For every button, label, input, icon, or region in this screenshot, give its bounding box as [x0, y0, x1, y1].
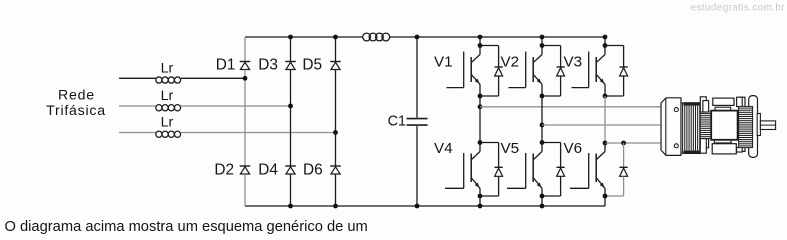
wire freewheel branch bottom leg 1 [480, 142, 499, 144]
diode freewheel (antiparallel to V2) [557, 67, 565, 76]
wire rectifier leg 3 middle [335, 70, 337, 167]
transistor IGBT V4 [434, 140, 480, 196]
inductor Lr (phase 3) [156, 115, 181, 138]
transistor IGBT V3 [564, 46, 606, 97]
svg-text:V1: V1 [434, 54, 453, 71]
node emitter V1 [478, 94, 483, 99]
inductor Lr (phase 2) [156, 88, 181, 111]
node phase 2 junction [288, 104, 293, 109]
node output phase 1 tap [478, 104, 483, 109]
node output phase 2 tap [540, 123, 545, 128]
wire DC+ top rail (bridge to choke) [245, 36, 363, 38]
node emitter V5 [540, 194, 545, 199]
node phase 1 junction [243, 76, 248, 81]
wire freewheel branch bottom return leg 1 [498, 176, 500, 196]
node emitter V3 [603, 94, 608, 99]
svg-text:estudegratis.com.br: estudegratis.com.br [691, 2, 786, 13]
transistor IGBT V1 [434, 46, 480, 97]
svg-text:Lr: Lr [161, 88, 174, 104]
wire leg 2 midpoint column [541, 96, 543, 143]
node C1 bottom [415, 204, 420, 209]
wire output phase 2 to motor [542, 124, 661, 126]
wire rectifier leg 2 middle [290, 70, 292, 167]
svg-text:V5: V5 [501, 140, 520, 157]
node bottom rail junction col2 [288, 204, 293, 209]
diode D6 [303, 162, 341, 179]
wire DC- bottom rail [245, 205, 605, 207]
svg-text:D3: D3 [258, 57, 278, 74]
wire output phase 1 to motor [480, 106, 661, 108]
node emitter V2 [540, 94, 545, 99]
wire phase 2 right segment [181, 105, 291, 107]
inductor DC link choke [363, 33, 390, 41]
wire phase 2 left segment [119, 105, 156, 107]
wire DC+ top rail (choke to inverter) [389, 36, 605, 38]
node C1 top [415, 35, 420, 40]
wire freewheel branch bottom return leg 2 [560, 176, 562, 196]
wire phase 3 right segment [181, 132, 336, 134]
wire rectifier leg 1 upper [244, 37, 246, 62]
wire rectifier leg 2 upper [290, 37, 292, 62]
wire rectifier leg 1 middle [244, 70, 246, 167]
svg-text:V2: V2 [501, 54, 520, 71]
node emitter V4 [478, 194, 483, 199]
node bottom rail leg 1 [478, 204, 483, 209]
node output phase 3 tap [603, 141, 608, 146]
wire freewheel branch top return leg 2 [560, 76, 562, 96]
transistor IGBT V5 [501, 140, 543, 196]
diode freewheel (antiparallel to V3) [620, 67, 628, 76]
diode freewheel (antiparallel to V5) [557, 167, 565, 176]
node freewheel branch bottom leg 3 [621, 141, 626, 146]
capacitor C1 [388, 37, 428, 206]
diode freewheel (antiparallel to V4) [495, 167, 503, 176]
svg-text:Lr: Lr [161, 60, 174, 76]
node bottom rail leg 2 [540, 204, 545, 209]
node top rail leg 2 [541, 37, 543, 46]
wire freewheel branch top return leg 1 [498, 76, 500, 96]
svg-text:Lr: Lr [161, 115, 174, 131]
node collector V4 [478, 140, 483, 145]
wire phase 1 right segment [181, 77, 245, 79]
wire rectifier leg 3 upper [335, 37, 337, 62]
wire rectifier leg 3 lower [335, 174, 337, 206]
svg-text:Rede: Rede [58, 88, 95, 104]
svg-text:O diagrama acima mostra um esq: O diagrama acima mostra um esquema genér… [5, 219, 368, 235]
svg-text:D2: D2 [214, 162, 234, 179]
wire emitter V4 to bottom rail [479, 196, 481, 206]
svg-text:D6: D6 [303, 162, 323, 179]
svg-text:V4: V4 [434, 140, 453, 157]
diode D3 [258, 57, 296, 74]
label Rede Trifásica (three-phase source) [46, 88, 106, 120]
wire leg 1 midpoint column [479, 96, 481, 143]
transistor IGBT V2 [501, 46, 543, 97]
node emitter V6 [603, 194, 608, 199]
wire freewheel branch bottom return leg 3 [623, 176, 625, 196]
svg-text:D5: D5 [302, 57, 322, 74]
wire freewheel branch bottom leg 3 [623, 143, 625, 167]
wire output phase 3 to motor [605, 142, 661, 144]
node top rail leg 3 [604, 37, 606, 46]
inductor Lr (phase 1) [156, 60, 181, 83]
node collector V5 [540, 140, 545, 145]
node top rail leg 1 [479, 37, 481, 46]
svg-text:V6: V6 [564, 140, 583, 157]
node bottom rail junction col3 [333, 204, 338, 209]
transistor IGBT V6 [564, 140, 606, 196]
node top rail junction col2 [288, 35, 293, 40]
node phase 3 junction [333, 130, 338, 135]
diode D1 [216, 57, 251, 74]
svg-text:Trifásica: Trifásica [46, 103, 106, 119]
wire freewheel branch top leg 1 [480, 45, 499, 47]
wire freewheel branch top leg 3 [605, 45, 624, 47]
wire emitter V5 to bottom rail [541, 196, 543, 206]
diode D5 [302, 57, 340, 74]
wire phase 3 left segment [119, 132, 156, 134]
diode freewheel (antiparallel to V1) [495, 67, 503, 76]
node top rail junction col3 [333, 35, 338, 40]
diode D2 [214, 162, 250, 179]
svg-text:D1: D1 [216, 57, 236, 74]
wire leg 3 midpoint column [604, 96, 606, 143]
wire rectifier leg 2 lower [290, 174, 292, 206]
wire rectifier leg 1 lower [244, 174, 246, 206]
wire freewheel branch bottom leg 2 [542, 142, 561, 144]
svg-text:V3: V3 [564, 54, 583, 71]
motor (gearmotor drawing) [661, 96, 776, 158]
diode D4 [258, 162, 296, 179]
svg-text:C1: C1 [388, 113, 406, 129]
wire freewheel branch top leg 2 [542, 45, 561, 47]
wire phase 1 left segment [119, 77, 156, 79]
svg-text:D4: D4 [258, 162, 278, 179]
diode freewheel (antiparallel to V6) [620, 167, 628, 176]
wire freewheel branch top return leg 3 [623, 76, 625, 96]
